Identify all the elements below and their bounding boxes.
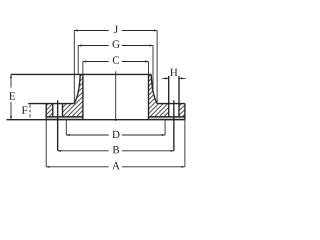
dim E [10,74,12,119]
plate top edge left + F extension [28,103,74,105]
label A [112,162,120,169]
dim H dashes [162,77,185,79]
label D [112,131,119,138]
label J [114,26,118,33]
face band tint [46,117,83,119]
bore wall right [148,74,150,119]
dim F [29,105,31,118]
flange section hatch left inner + hub wall [63,74,83,116]
plate left edge [45,104,47,120]
bore wall left [82,74,84,119]
bolt hole right edges with H extensions [169,76,179,117]
dim B [58,150,174,152]
flange section hatch left outer [46,104,53,117]
label H [170,69,177,76]
label B [113,146,119,153]
flange section hatch right inner + hub wall [149,74,169,116]
dim J [74,30,157,32]
label C [113,56,119,63]
dim C [83,61,149,63]
flange bottom + E extension line [7,119,185,121]
arrowheads [10,29,185,168]
face step line [46,116,185,118]
label F [22,106,27,113]
bolt centerline right [173,100,175,151]
flange section hatch right outer [179,104,185,117]
dim D [66,134,165,136]
hub outer curve left [74,74,80,103]
hub top edge + E extension line [11,73,151,75]
bolt centerline left [57,100,59,151]
bolt hole left edges [53,104,63,117]
plate top edge right [157,103,185,105]
centerline [115,71,117,121]
label E [9,92,15,99]
label G [112,40,119,47]
plate right edge [184,104,186,120]
dim A [46,166,185,168]
dim G [78,45,153,47]
hub outer curve right [151,74,157,103]
